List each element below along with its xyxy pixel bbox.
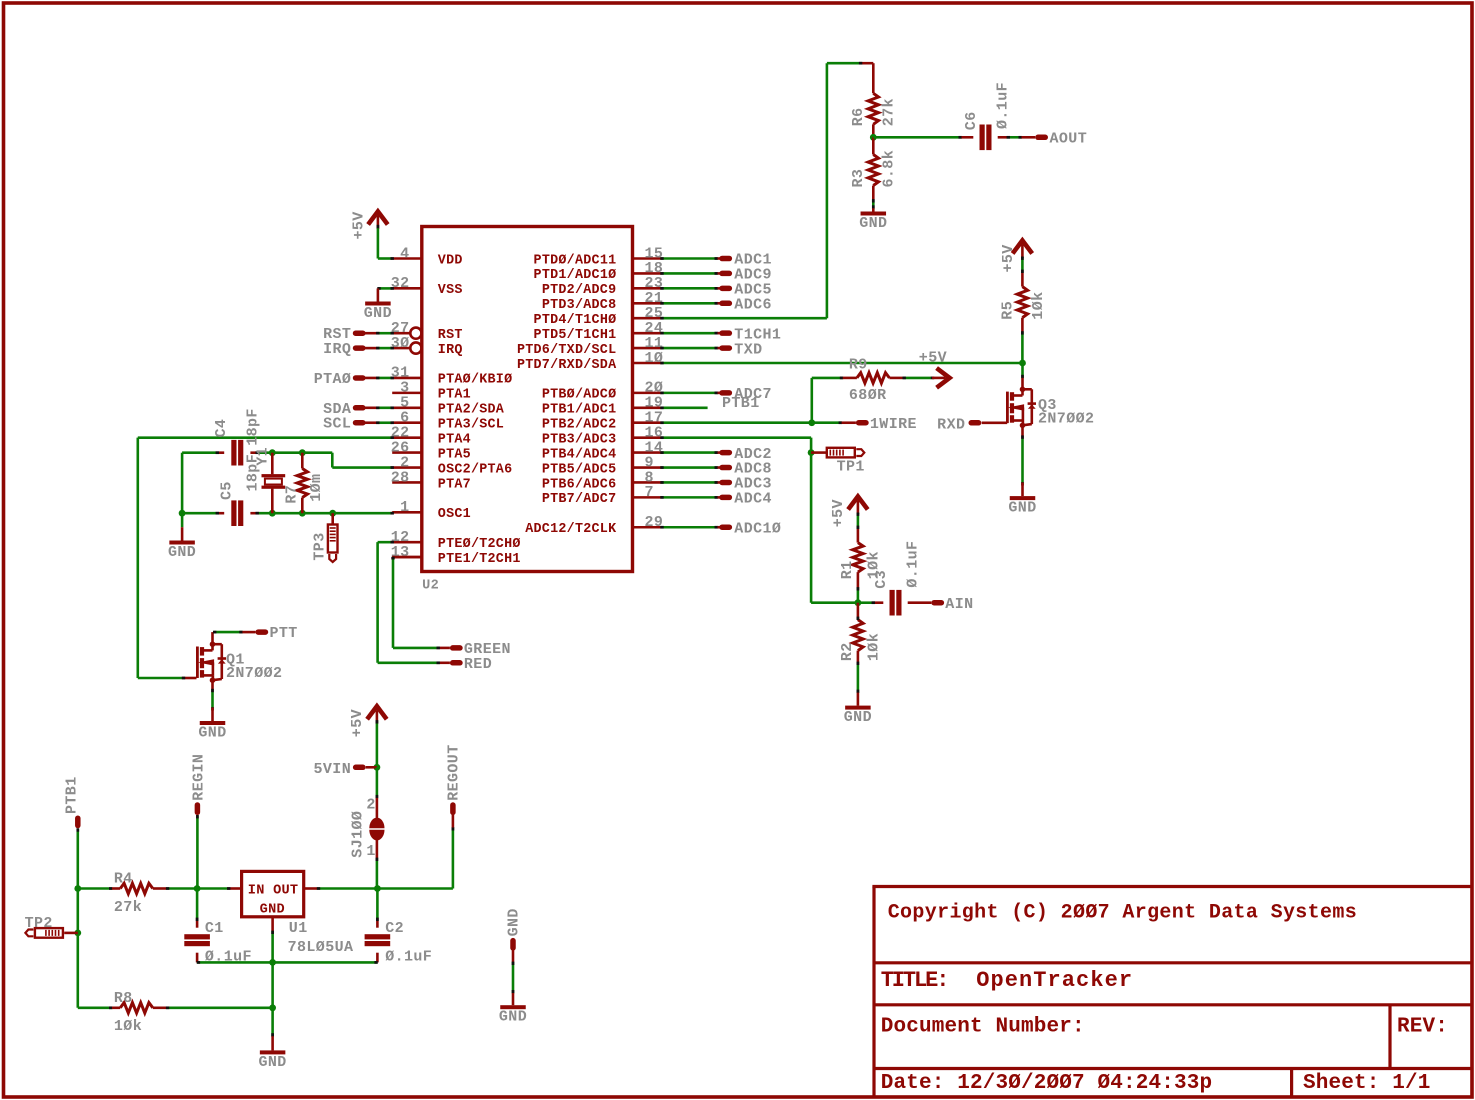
net label ADC6 [718, 302, 721, 305]
resistor R1 [857, 513, 860, 529]
net label ADC3 [718, 481, 721, 484]
U2 pin 29 (ADC12/T2CLK) [633, 526, 663, 529]
svg-text:PTD3/ADC8: PTD3/ADC8 [542, 298, 617, 313]
title block frame [872, 887, 875, 1098]
svg-text:+5V: +5V [830, 499, 847, 527]
svg-text:PTD4/T1CHØ: PTD4/T1CHØ [534, 313, 617, 328]
svg-text:R7: R7 [284, 485, 301, 504]
junction R6/R3/C6 [870, 134, 877, 141]
U2 pin 14 (PTB4/ADC4) [633, 451, 663, 454]
wire +5V to 5VIN junction [376, 721, 379, 768]
svg-text:TP3: TP3 [312, 532, 329, 560]
svg-text:SJ1ØØ: SJ1ØØ [350, 811, 367, 858]
svg-text:PTB1/ADC1: PTB1/ADC1 [542, 403, 617, 418]
ground at U1 [271, 1036, 274, 1050]
svg-text:1Øm: 1Øm [308, 474, 325, 502]
wire R4 to C1 node [166, 887, 197, 890]
svg-text:VSS: VSS [438, 283, 463, 298]
ground at GND stub [512, 993, 515, 1005]
svg-text:27k: 27k [881, 98, 898, 126]
resistor R4 [112, 887, 120, 890]
junction R7 top [299, 449, 306, 456]
wire SJ100 to OUT node [376, 858, 379, 889]
test point TP1 [811, 451, 827, 454]
svg-text:GND: GND [506, 908, 523, 936]
net label AOUT [1022, 136, 1036, 139]
wire IRQ [365, 347, 378, 350]
svg-text:1Øk: 1Øk [114, 1018, 142, 1035]
wire 5VIN to SJ100 [376, 767, 379, 798]
U2 pin 7 (PTB7/ADC7) [633, 496, 663, 499]
ground at R3 [872, 208, 875, 211]
svg-text:R9: R9 [849, 356, 868, 373]
svg-text:Ø.1uF: Ø.1uF [995, 82, 1012, 129]
svg-text:GND: GND [859, 215, 887, 232]
svg-text:TP1: TP1 [837, 458, 865, 475]
junction OSC1/C5 [269, 510, 276, 517]
svg-text:OSC2/PTA6: OSC2/PTA6 [438, 462, 513, 477]
U2 pin 1 (OSC1) [392, 511, 422, 514]
svg-text:PTT: PTT [270, 625, 298, 642]
wire to main ground [271, 1008, 274, 1036]
wire ADC1 [662, 257, 718, 260]
net label 1WIRE [812, 421, 842, 424]
svg-text:IN: IN [248, 884, 265, 899]
svg-text:Ø.1uF: Ø.1uF [904, 541, 921, 588]
wire Q3 source to ground [1021, 425, 1024, 439]
svg-text:PTA1: PTA1 [438, 388, 471, 403]
svg-text:RST: RST [438, 328, 463, 343]
ground at VSS [377, 288, 380, 301]
svg-text:PTD5/T1CH1: PTD5/T1CH1 [534, 328, 617, 343]
svg-text:4: 4 [400, 245, 409, 262]
wire PTB2 1WIRE net [662, 421, 812, 424]
U2 pin 13 (PTE1/T2CH1) [392, 556, 422, 559]
wire PTB1 to R8 [78, 1006, 112, 1009]
svg-text:GND: GND [260, 902, 285, 917]
net label ADC2 [718, 451, 721, 454]
U2 pin 17 (PTB2/ADC2) [633, 421, 663, 424]
svg-text:PTB2/ADC2: PTB2/ADC2 [542, 418, 617, 433]
wire R9 to +5V arrow [903, 377, 931, 380]
svg-text:PTB1: PTB1 [722, 395, 760, 412]
svg-text:AOUT: AOUT [1050, 131, 1088, 148]
+5V symbol at VDD [368, 212, 388, 225]
wire U1 GND pin [271, 917, 274, 931]
+5V symbol at R5 [1013, 241, 1033, 254]
svg-text:OpenTracker: OpenTracker [976, 968, 1133, 993]
svg-text:PTE1/T2CH1: PTE1/T2CH1 [438, 552, 521, 567]
svg-text:PTD6/TXD/SCL: PTD6/TXD/SCL [517, 343, 616, 358]
U2 pin 11 (PTD6/TXD/SCL) [633, 347, 663, 350]
svg-text:U1: U1 [289, 920, 308, 937]
svg-text:ADC12/T2CLK: ADC12/T2CLK [525, 522, 617, 537]
U2 pin 30 (IRQ) [392, 347, 410, 350]
svg-text:Y1: Y1 [255, 447, 272, 466]
U2 pin 22 (PTA4) [392, 436, 422, 439]
U2 pin 2 (OSC2/PTA6) [392, 466, 422, 469]
svg-text:OUT: OUT [273, 884, 298, 899]
U2 pin 9 (PTB5/ADC5) [633, 466, 663, 469]
resistor R5 [1021, 257, 1024, 273]
wire RXD to Q3 gate [982, 421, 1008, 424]
svg-text:2N7ØØ2: 2N7ØØ2 [1038, 410, 1094, 427]
svg-text:GND: GND [364, 305, 392, 322]
svg-text:C1: C1 [205, 920, 224, 937]
wire C6 to AOUT [1007, 136, 1022, 139]
svg-text:RED: RED [464, 656, 492, 673]
U2 pin 15 (PTD0/ADC11) [633, 257, 663, 260]
svg-text:1Øk: 1Øk [865, 633, 882, 661]
svg-text:PTAØ: PTAØ [314, 371, 352, 388]
resistor R6 [872, 63, 875, 93]
test point TP3 [331, 513, 334, 524]
wire PTB1 to R4 [78, 887, 112, 890]
svg-text:IRQ: IRQ [323, 341, 351, 358]
junction TP3 [329, 510, 336, 517]
capacitor C1 [196, 889, 199, 919]
svg-text:PTBØ/ADCØ: PTBØ/ADCØ [542, 388, 617, 403]
U2 pin 6 (PTA3/SCL) [392, 421, 422, 424]
svg-text:C4: C4 [213, 419, 230, 438]
svg-text:GND: GND [844, 709, 872, 726]
svg-text:PTB3/ADC3: PTB3/ADC3 [542, 432, 617, 447]
capacitor C2 [376, 889, 379, 919]
U2 pin 5 (PTA2/SDA) [392, 406, 422, 409]
svg-text:Document Number:: Document Number: [881, 1016, 1085, 1039]
U2 pin 8 (PTB6/ADC6) [633, 481, 663, 484]
svg-text:18pF: 18pF [244, 408, 261, 446]
net label ADC7 [718, 392, 721, 395]
U2 pin 24 (PTD5/T1CH1) [633, 332, 663, 335]
ground at Q1 [211, 708, 214, 722]
svg-text:C3: C3 [873, 570, 890, 589]
wire R6 to C6 [873, 136, 961, 139]
wire Q1 source to ground [211, 680, 214, 692]
wire PTD4 to R6 [662, 317, 827, 320]
U2 pin 25 (PTD4/T1CH0) [633, 317, 663, 320]
svg-text:7: 7 [645, 484, 654, 501]
wire SCL [365, 421, 378, 424]
svg-text:+5V: +5V [919, 349, 947, 366]
U2 pin 19 (PTB1/ADC1) [633, 406, 663, 409]
wire PTE0 to RED [378, 541, 393, 544]
resistor R2 [857, 603, 860, 620]
wire ADC2 [662, 451, 718, 454]
net label TXD [718, 347, 721, 350]
wire PTB1 stub [662, 406, 708, 409]
svg-text:+5V: +5V [1000, 244, 1017, 272]
svg-text:R3: R3 [850, 169, 867, 188]
svg-text:68ØR: 68ØR [849, 387, 887, 404]
U2 pin 31 (PTA0/KBI0) [392, 377, 422, 380]
wire ADC9 [662, 272, 718, 275]
svg-text:REGOUT: REGOUT [446, 744, 463, 800]
junction C1/IN [194, 885, 201, 892]
op-amp U2 MCU box [422, 227, 633, 572]
wire GND stub [512, 962, 515, 993]
wire +5V to VDD [377, 228, 380, 259]
svg-text:27k: 27k [114, 899, 142, 916]
svg-text:C5: C5 [218, 481, 235, 500]
transistor Q3 [1021, 378, 1024, 390]
wire rail to R8 junction [271, 962, 274, 1007]
svg-text:ADC6: ADC6 [734, 296, 772, 313]
net label RED [437, 661, 450, 664]
svg-text:OSC1: OSC1 [438, 507, 471, 522]
svg-text:GREEN: GREEN [464, 641, 511, 658]
wire R8 to GND junction [166, 1006, 272, 1009]
wire Q3 drain [1021, 363, 1024, 378]
junction C2/OUT [374, 885, 381, 892]
net label ADC9 [718, 272, 721, 275]
U2 pin 4 (VDD) [392, 257, 422, 260]
svg-text:PTB6/ADC6: PTB6/ADC6 [542, 477, 617, 492]
junction AIN node [855, 599, 862, 606]
junction TP1 [808, 449, 815, 456]
svg-text:PTB5/ADC5: PTB5/ADC5 [542, 462, 617, 477]
svg-text:GND: GND [258, 1054, 286, 1071]
svg-text:Ø.1uF: Ø.1uF [385, 949, 432, 966]
svg-text:PTA5: PTA5 [438, 447, 471, 462]
svg-text:Copyright (C) 2ØØ7 Argent Data: Copyright (C) 2ØØ7 Argent Data Systems [888, 902, 1357, 925]
svg-text:PTD7/RXD/SDA: PTD7/RXD/SDA [517, 358, 617, 373]
svg-text:PTDØ/ADC11: PTDØ/ADC11 [534, 253, 617, 268]
junction TP2 [74, 930, 81, 937]
svg-text:PTB4/ADC4: PTB4/ADC4 [542, 447, 617, 462]
U2 pin 3 (PTA1) [392, 392, 422, 395]
svg-text:1: 1 [366, 843, 375, 860]
svg-text:28: 28 [391, 469, 410, 486]
svg-text:PTD1/ADC1Ø: PTD1/ADC1Ø [534, 268, 617, 283]
wire U1 OUT to C2 [304, 887, 318, 890]
svg-text:C2: C2 [385, 920, 404, 937]
svg-text:6.8k: 6.8k [881, 150, 898, 188]
wire PTE1 to GREEN [392, 557, 395, 648]
svg-text:PTB7/ADC7: PTB7/ADC7 [542, 492, 617, 507]
svg-text:PTD2/ADC9: PTD2/ADC9 [542, 283, 617, 298]
ground at crystal [181, 513, 184, 527]
svg-text:2: 2 [366, 796, 375, 813]
net label GREEN [437, 647, 450, 650]
net label AIN [908, 601, 932, 604]
capacitor C6 [962, 136, 974, 139]
U2 pin 16 (PTB3/ADC3) [633, 436, 663, 439]
svg-text:R2: R2 [839, 642, 856, 661]
+5V symbol at regulator [367, 706, 387, 719]
junction 5VIN [374, 764, 381, 771]
svg-text:PTA3/SCL: PTA3/SCL [438, 418, 504, 433]
svg-text:TXD: TXD [734, 341, 762, 358]
net label T1CH1 [718, 332, 721, 335]
+5V symbol at R1 [848, 497, 868, 510]
wire C4-C5 left link [181, 453, 184, 514]
wire SDA [365, 406, 378, 409]
svg-text:1WIRE: 1WIRE [870, 416, 917, 433]
junction C5/GND [179, 510, 186, 517]
capacitor C5 [231, 500, 236, 526]
wire R9 branch [810, 378, 813, 423]
wire RST [365, 332, 378, 335]
solder jumper SJ100 [376, 798, 379, 818]
resistor R3 [872, 137, 875, 154]
svg-text:RXD: RXD [937, 417, 965, 434]
wire PTB3 to AIN node [662, 436, 811, 439]
wire PTA0 [365, 377, 378, 380]
svg-text:R5: R5 [999, 301, 1016, 320]
wire Q1 drain to PTT [211, 632, 214, 644]
crystal Y1 [271, 453, 274, 475]
wire ADC8 [662, 466, 718, 469]
wire REGIN vertical [196, 815, 199, 888]
wire C1-C2 ground rail [197, 961, 377, 964]
U2 pin 20 (PTB0/ADC0) [633, 392, 663, 395]
svg-text:+5V: +5V [349, 709, 366, 737]
U2 pin 26 (PTA5) [392, 451, 422, 454]
svg-text:R6: R6 [850, 107, 867, 126]
svg-text:REGIN: REGIN [190, 754, 207, 801]
wire R3 to ground [872, 200, 875, 209]
svg-text:ADC1Ø: ADC1Ø [734, 520, 781, 537]
junction OSC2/C4 [269, 449, 276, 456]
svg-text:PTA7: PTA7 [438, 477, 471, 492]
capacitor C3 [858, 601, 872, 604]
wire ADC7 [662, 392, 718, 395]
svg-text:5VIN: 5VIN [313, 761, 351, 778]
net label PTT [242, 631, 255, 634]
wire TXD [662, 347, 718, 350]
ground at Q3 [1021, 483, 1024, 497]
transistor Q1 [210, 641, 216, 647]
svg-text:PTA2/SDA: PTA2/SDA [438, 403, 505, 418]
junction R8/GND [269, 1004, 276, 1011]
U2 pin 18 (PTD1/ADC10) [633, 272, 663, 275]
svg-text:PTB1: PTB1 [63, 776, 80, 814]
wire ADC10 [662, 526, 718, 529]
U2 pin 21 (PTD3/ADC8) [633, 302, 663, 305]
test point TP2 [64, 932, 78, 935]
svg-text:78LØ5UA: 78LØ5UA [288, 939, 354, 956]
svg-text:2N7ØØ2: 2N7ØØ2 [226, 665, 282, 682]
U2 pin 32 (VSS) [392, 287, 422, 290]
+5V symbol right arrow [937, 368, 950, 388]
svg-text:Sheet: 1/1: Sheet: 1/1 [1303, 1072, 1431, 1095]
svg-text:GND: GND [499, 1009, 527, 1026]
capacitor C4 [231, 440, 236, 466]
svg-text:PTEØ/T2CHØ: PTEØ/T2CHØ [438, 537, 521, 552]
svg-text:REV:: REV: [1397, 1016, 1448, 1039]
U2 pin 12 (PTE0/T2CH0) [392, 541, 422, 544]
wire VSS to ground [378, 287, 392, 290]
wire PTD7 +5V net [662, 362, 1023, 365]
svg-text:TITLE:: TITLE: [881, 968, 948, 993]
junction R4/PTB1 [74, 885, 81, 892]
svg-text:GND: GND [168, 544, 196, 561]
net label ADC4 [718, 496, 721, 499]
svg-text:GND: GND [198, 725, 226, 742]
U2 pin 23 (PTD2/ADC9) [633, 287, 663, 290]
U2 pin 28 (PTA7) [392, 481, 422, 484]
wire ADC6 [662, 302, 718, 305]
wire ADC5 [662, 287, 718, 290]
wire T1CH1 [662, 332, 718, 335]
svg-text:R8: R8 [114, 990, 133, 1007]
svg-text:AIN: AIN [945, 596, 973, 613]
op-amp U1 regulator box [242, 871, 304, 916]
U2 pin 27 (RST) [392, 332, 410, 335]
junction +5V/Q3 [1019, 360, 1026, 367]
svg-text:Date: 12/3Ø/2ØØ7 Ø4:24:33p: Date: 12/3Ø/2ØØ7 Ø4:24:33p [881, 1072, 1213, 1095]
net label ADC1 [718, 257, 721, 260]
junction ground rail [269, 959, 276, 966]
svg-text:R4: R4 [114, 871, 133, 888]
svg-text:C6: C6 [963, 111, 980, 130]
svg-text:IRQ: IRQ [438, 343, 463, 358]
svg-text:VDD: VDD [438, 253, 463, 268]
junction 1WIRE [808, 419, 815, 426]
resistor R7 [301, 453, 304, 469]
svg-text:+5V: +5V [350, 211, 367, 239]
net label ADC5 [718, 287, 721, 290]
svg-text:PTAØ/KBIØ: PTAØ/KBIØ [438, 373, 513, 388]
ground at R2 [857, 693, 860, 706]
svg-text:TP2: TP2 [25, 915, 53, 932]
junction R7 bottom [299, 510, 306, 517]
svg-text:U2: U2 [422, 579, 439, 594]
wire PTA4 to Q1 gate [138, 436, 392, 439]
svg-text:ADC4: ADC4 [734, 491, 772, 508]
net label ADC8 [718, 466, 721, 469]
resistor R8 [112, 1006, 120, 1009]
resistor R9 [843, 377, 857, 380]
wire OSC2 node [182, 451, 216, 454]
svg-text:1Øk: 1Øk [1030, 291, 1047, 319]
wire PTB1 vertical [77, 829, 80, 1008]
svg-text:PTA4: PTA4 [438, 432, 471, 447]
svg-text:SCL: SCL [323, 416, 351, 433]
svg-text:1: 1 [400, 499, 409, 516]
wire OUT to REGOUT corner [377, 887, 453, 890]
wire ADC3 [662, 481, 718, 484]
wire to U1 IN [197, 887, 227, 890]
U2 pin 10 (PTD7/RXD/SDA) [633, 362, 663, 365]
net label ADC10 [718, 526, 721, 529]
svg-text:R1: R1 [839, 560, 856, 579]
wire OSC1 node [182, 512, 216, 515]
svg-text:GND: GND [1008, 500, 1036, 517]
wire ADC4 [662, 496, 718, 499]
